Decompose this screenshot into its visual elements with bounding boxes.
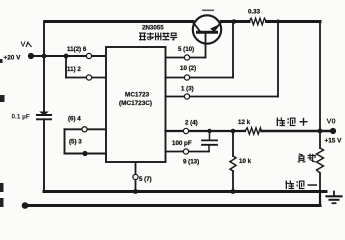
svg-text:10 (2): 10 (2) bbox=[180, 65, 196, 72]
svg-text:9 (13): 9 (13) bbox=[183, 159, 199, 166]
svg-text:2 (4): 2 (4) bbox=[185, 120, 198, 127]
svg-text:0.33: 0.33 bbox=[248, 9, 261, 16]
svg-text:MC1723: MC1723 bbox=[125, 92, 150, 99]
svg-text:0.1 µF: 0.1 µF bbox=[12, 114, 30, 121]
svg-text:5 (7): 5 (7) bbox=[139, 176, 152, 183]
svg-text:(6) 4: (6) 4 bbox=[68, 116, 81, 123]
svg-text:2N3055: 2N3055 bbox=[142, 25, 164, 32]
svg-text:(MC1723C): (MC1723C) bbox=[119, 100, 152, 107]
svg-text:1 (3): 1 (3) bbox=[181, 86, 194, 93]
svg-text:(5) 3: (5) 3 bbox=[69, 139, 82, 146]
svg-text:12 k: 12 k bbox=[238, 119, 251, 126]
svg-text:+20 V: +20 V bbox=[4, 55, 22, 62]
svg-text:100 pF: 100 pF bbox=[172, 140, 192, 147]
svg-text:11(2) 6: 11(2) 6 bbox=[67, 46, 87, 53]
svg-text:V: V bbox=[21, 40, 26, 49]
svg-text:5 (10): 5 (10) bbox=[178, 46, 194, 53]
svg-text:+15 V: +15 V bbox=[325, 138, 343, 145]
svg-text:(11) 2: (11) 2 bbox=[65, 66, 81, 73]
svg-text:V0: V0 bbox=[327, 117, 336, 126]
svg-text:10 k: 10 k bbox=[239, 158, 252, 165]
